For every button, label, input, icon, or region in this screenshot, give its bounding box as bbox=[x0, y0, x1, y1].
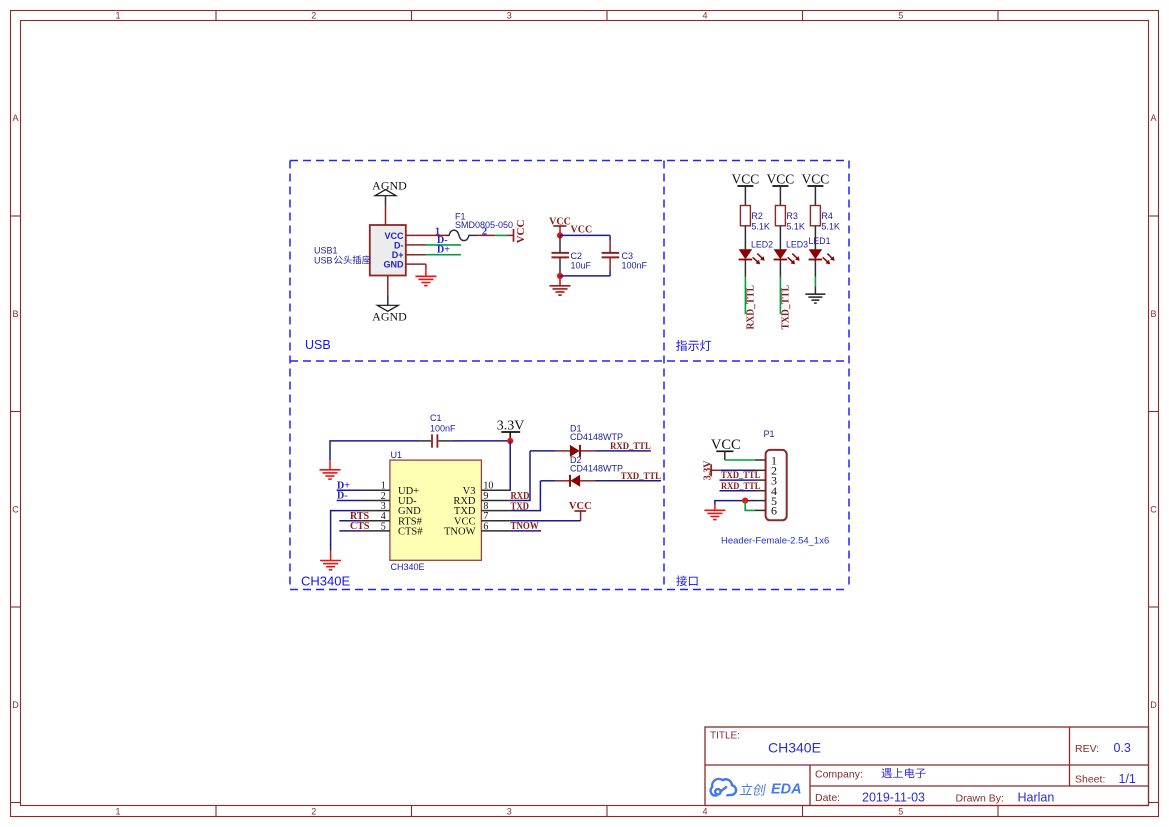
svg-text:D: D bbox=[1150, 700, 1157, 710]
net wire RXD_TTL from D1 bbox=[595, 450, 651, 452]
svg-text:2: 2 bbox=[311, 807, 316, 817]
svg-text:USB: USB bbox=[314, 256, 333, 266]
wire C1 to 3.3V node bbox=[451, 440, 510, 442]
net wire D+ to pin1 bbox=[337, 489, 362, 491]
wire LED3 cathode bbox=[779, 260, 781, 277]
net wire P1 pin5 to ground bbox=[715, 501, 755, 505]
pin 4 of P1 bbox=[755, 484, 777, 498]
pin 2 of P1 bbox=[755, 464, 777, 478]
svg-text:CH340E: CH340E bbox=[301, 574, 350, 589]
net wire P1 pin4 bbox=[720, 490, 756, 492]
resistor R4 bbox=[810, 206, 820, 226]
net wire P1 pin1 green bbox=[725, 459, 755, 461]
header P1 body bbox=[766, 450, 787, 520]
svg-text:A: A bbox=[12, 113, 18, 123]
wire USB1 GND-side pin down bbox=[387, 276, 389, 295]
section dashed grid bbox=[290, 161, 849, 590]
svg-text:C1: C1 bbox=[430, 413, 442, 423]
svg-text:10uF: 10uF bbox=[571, 260, 592, 270]
net wire RTS to pin4 bbox=[339, 520, 361, 522]
svg-text:USB1: USB1 bbox=[314, 246, 338, 256]
svg-text:C: C bbox=[1150, 505, 1157, 515]
net wire P1 pin3 bbox=[720, 479, 756, 481]
svg-text:TITLE:: TITLE: bbox=[710, 731, 740, 742]
svg-text:USB: USB bbox=[305, 338, 331, 352]
net wire P1 pin6 green bbox=[745, 501, 755, 511]
svg-text:Company:: Company: bbox=[815, 769, 863, 781]
svg-text:4: 4 bbox=[702, 807, 707, 817]
connector USB1 pin names bbox=[384, 231, 405, 270]
net wire LED1 green bbox=[814, 277, 816, 287]
section label 接口 bbox=[676, 576, 687, 587]
svg-text:REV:: REV: bbox=[1075, 743, 1099, 755]
net wire pin9 to D1 bbox=[510, 451, 530, 501]
svg-text:2: 2 bbox=[311, 11, 316, 21]
svg-text:VCC: VCC bbox=[571, 225, 593, 236]
capacitor C2 bbox=[552, 235, 570, 276]
pin 9 (RXD) of U1 bbox=[453, 491, 509, 507]
svg-text:D-: D- bbox=[394, 240, 404, 250]
wire USB1 VCC pin to fuse bbox=[406, 234, 446, 236]
logo LCEDA cloud bbox=[711, 779, 736, 796]
svg-text:R4: R4 bbox=[821, 211, 833, 221]
svg-text:U1: U1 bbox=[391, 450, 403, 460]
svg-text:VCC: VCC bbox=[732, 172, 760, 187]
svg-text:2019-11-03: 2019-11-03 bbox=[862, 791, 925, 805]
svg-text:4: 4 bbox=[702, 11, 707, 21]
svg-text:C: C bbox=[12, 505, 19, 515]
junction dot 3.3V bbox=[507, 438, 513, 444]
capacitor C3 bbox=[602, 235, 620, 276]
svg-text:AGND: AGND bbox=[372, 179, 407, 193]
svg-text:GND: GND bbox=[384, 260, 405, 270]
svg-text:R3: R3 bbox=[786, 211, 798, 221]
svg-text:LED3: LED3 bbox=[786, 240, 808, 250]
net wire pin8 to D2 bbox=[510, 481, 541, 511]
pin 4 (RTS#) of U1 bbox=[362, 511, 423, 527]
svg-text:VCC: VCC bbox=[802, 172, 830, 187]
svg-text:Harlan: Harlan bbox=[1018, 791, 1055, 805]
pin 1 of P1 bbox=[755, 453, 777, 467]
LED LED1 bbox=[809, 249, 835, 264]
wire R4 to LED1 bbox=[814, 226, 816, 250]
pin 10 (V3) of U1 bbox=[463, 481, 510, 497]
wire to D2 cathode bbox=[540, 480, 555, 482]
svg-text:D: D bbox=[12, 700, 19, 710]
pin 5 (CTS#) of U1 bbox=[362, 521, 424, 537]
power 3.3V at P1 bbox=[703, 460, 721, 481]
svg-text:0.3: 0.3 bbox=[1114, 741, 1131, 755]
svg-text:RXD_TTL: RXD_TTL bbox=[745, 285, 756, 330]
wire fuse pin 2 bbox=[474, 234, 477, 236]
svg-text:3: 3 bbox=[507, 807, 512, 817]
net wire pin7 to VCC bbox=[510, 520, 581, 522]
resistor R2 bbox=[740, 206, 750, 226]
svg-text:5: 5 bbox=[898, 11, 903, 21]
wire LED2 cathode bbox=[744, 260, 746, 277]
power VCC at pin7 bbox=[569, 501, 592, 521]
svg-text:VCC: VCC bbox=[767, 172, 795, 187]
junction dot GND/C2 bbox=[557, 273, 563, 279]
svg-text:Date:: Date: bbox=[815, 792, 840, 804]
power VCC right of fuse bbox=[506, 220, 527, 244]
LED LED2 bbox=[739, 249, 765, 264]
section label 指示灯 bbox=[676, 340, 687, 351]
junction dot VCC/C2 bbox=[557, 232, 563, 238]
svg-text:B: B bbox=[1150, 309, 1156, 319]
power VCC above C2 bbox=[549, 216, 571, 232]
svg-text:TXD_TTL: TXD_TTL bbox=[780, 285, 791, 330]
net wire D- green bbox=[426, 244, 461, 246]
svg-text:5.1K: 5.1K bbox=[821, 221, 840, 231]
wire USB1 D+ pin bbox=[406, 254, 426, 256]
net wire TNOW stub bbox=[510, 530, 541, 532]
net wire TXD_TTL green bbox=[779, 277, 781, 315]
ground left lower bbox=[320, 551, 341, 570]
svg-text:RXD_TTL: RXD_TTL bbox=[610, 441, 651, 452]
svg-text:VCC: VCC bbox=[515, 220, 527, 244]
svg-text:CH340E: CH340E bbox=[391, 562, 425, 572]
power VCC above R3 bbox=[767, 172, 795, 206]
svg-text:1: 1 bbox=[115, 11, 120, 21]
LED LED3 bbox=[774, 249, 800, 264]
wire USB1 VCC pin to AGND bbox=[385, 206, 387, 225]
pin 5 of P1 bbox=[755, 494, 777, 508]
power VCC above R4 bbox=[802, 172, 830, 206]
power VCC at P1 bbox=[711, 437, 741, 460]
svg-text:TNOW: TNOW bbox=[444, 527, 476, 538]
wire to D1 anode bbox=[530, 450, 556, 452]
svg-text:6: 6 bbox=[771, 504, 777, 518]
net wire CTS to pin5 bbox=[339, 530, 361, 532]
title value 遇上电子 bbox=[881, 768, 891, 778]
ground left upper bbox=[320, 460, 341, 479]
power AGND top bbox=[372, 179, 407, 206]
wire VCC rail top bbox=[560, 234, 610, 236]
svg-text:Header-Female-2.54_1x6: Header-Female-2.54_1x6 bbox=[721, 535, 829, 546]
power 3.3V bbox=[497, 419, 525, 439]
svg-text:TXD_TTL: TXD_TTL bbox=[621, 471, 661, 482]
pin 6 (TNOW) of U1 bbox=[444, 521, 510, 537]
power AGND bottom bbox=[372, 295, 407, 324]
svg-text:Sheet:: Sheet: bbox=[1075, 773, 1105, 785]
svg-text:CD4148WTP: CD4148WTP bbox=[570, 463, 623, 473]
diode D1 bbox=[556, 445, 596, 457]
resistor R3 bbox=[775, 206, 785, 226]
svg-text:LED2: LED2 bbox=[751, 240, 773, 250]
svg-text:AGND: AGND bbox=[372, 310, 407, 324]
net wire P1 pin2 bbox=[720, 469, 755, 471]
wire GND rail bottom bbox=[560, 275, 610, 277]
pin 2 (UD-) of U1 bbox=[362, 491, 417, 507]
svg-text:5.1K: 5.1K bbox=[751, 221, 770, 231]
pin 8 (TXD) of U1 bbox=[454, 501, 510, 517]
wire USB1 GND pin bbox=[406, 263, 426, 265]
ground below LED1 bbox=[805, 293, 825, 295]
svg-text:A: A bbox=[1150, 113, 1156, 123]
net wire TXD_TTL from D2 bbox=[595, 480, 661, 482]
svg-text:Drawn By:: Drawn By: bbox=[956, 793, 1004, 805]
net wire RXD_TTL green bbox=[744, 277, 746, 315]
svg-text:VCC: VCC bbox=[569, 501, 592, 512]
wire pin3 GND down bbox=[331, 511, 362, 551]
title block grid bbox=[705, 727, 1149, 806]
svg-text:VCC: VCC bbox=[384, 231, 404, 241]
pin 7 (VCC) of U1 bbox=[454, 511, 510, 527]
pin 3 of P1 bbox=[755, 473, 777, 487]
ground below USB1 GND bbox=[415, 275, 436, 277]
svg-text:1: 1 bbox=[115, 807, 120, 817]
net wire pin10 to 3.3V bbox=[509, 441, 511, 490]
svg-text:CH340E: CH340E bbox=[768, 739, 821, 755]
ground below C2 bbox=[550, 276, 571, 295]
net wire D- to pin2 bbox=[337, 500, 362, 502]
svg-text:6: 6 bbox=[483, 521, 488, 532]
svg-text:2: 2 bbox=[482, 227, 487, 238]
pin 3 (GND) of U1 bbox=[362, 501, 421, 517]
junction dot P1 pin5/6 bbox=[742, 498, 748, 504]
IC U1 body bbox=[390, 460, 482, 560]
fuse F1 bbox=[446, 230, 474, 241]
ground at P1 bbox=[704, 505, 725, 520]
power VCC above R2 bbox=[732, 172, 760, 206]
wire USB1 D- pin bbox=[406, 244, 426, 246]
svg-text:100nF: 100nF bbox=[622, 260, 648, 270]
connector USB1 body bbox=[370, 225, 406, 276]
svg-text:D+: D+ bbox=[437, 245, 450, 256]
svg-text:TNOW: TNOW bbox=[511, 521, 539, 532]
svg-text:100nF: 100nF bbox=[430, 423, 456, 433]
svg-text:CTS#: CTS# bbox=[398, 527, 423, 538]
logo text 立创EDA bbox=[740, 784, 766, 796]
svg-text:P1: P1 bbox=[764, 429, 775, 439]
svg-text:5.1K: 5.1K bbox=[786, 221, 805, 231]
svg-text:1/1: 1/1 bbox=[1119, 772, 1136, 786]
pin 1 (UD+) of U1 bbox=[362, 481, 419, 497]
wire 3V3 rail left bbox=[330, 441, 420, 460]
wire LED1 to ground bbox=[814, 286, 816, 294]
svg-text:5: 5 bbox=[898, 807, 903, 817]
svg-text:3: 3 bbox=[507, 11, 512, 21]
svg-text:EDA: EDA bbox=[771, 781, 802, 798]
wire LED1 cathode bbox=[814, 260, 816, 277]
capacitor C1 bbox=[420, 434, 451, 447]
svg-text:R2: R2 bbox=[751, 211, 763, 221]
svg-text:5: 5 bbox=[381, 521, 386, 532]
svg-text:B: B bbox=[12, 309, 18, 319]
wire R2 to LED2 bbox=[744, 226, 746, 250]
pin 6 of P1 bbox=[755, 504, 777, 518]
diode D2 bbox=[556, 475, 596, 487]
wire R3 to LED3 bbox=[779, 226, 781, 250]
net wire D+ green bbox=[426, 254, 461, 256]
svg-text:D+: D+ bbox=[392, 250, 404, 260]
wire green fuse to VCC bbox=[495, 234, 506, 236]
svg-text:LED1: LED1 bbox=[809, 236, 831, 246]
